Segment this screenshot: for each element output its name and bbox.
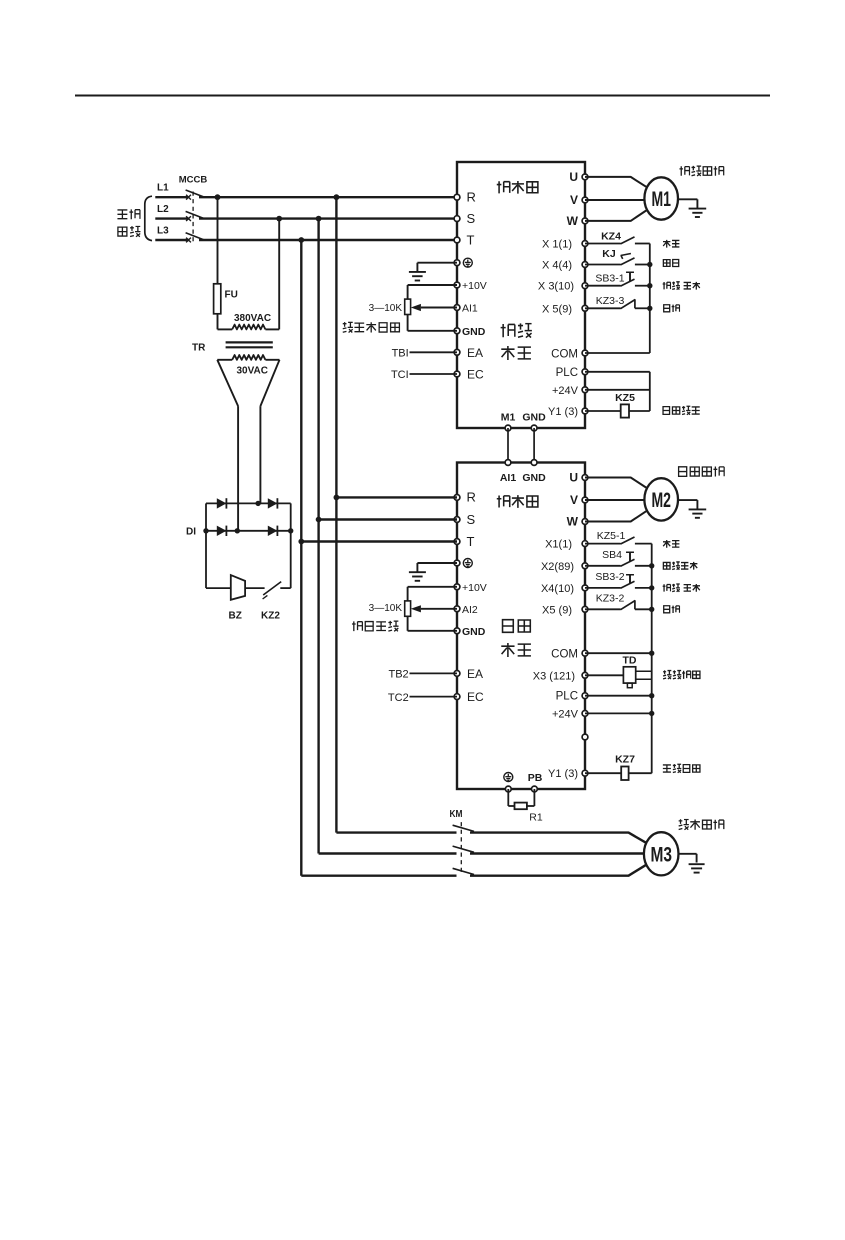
svg-text:MCCB: MCCB (179, 175, 208, 186)
svg-text:SB3-2: SB3-2 (595, 571, 624, 583)
svg-text:M1: M1 (501, 412, 516, 424)
svg-text:GND: GND (462, 326, 486, 338)
svg-text:SB3-1: SB3-1 (595, 273, 624, 285)
svg-text:T: T (467, 534, 475, 549)
svg-text:X5 (9): X5 (9) (542, 604, 572, 616)
svg-text:EA: EA (467, 667, 483, 681)
svg-text:EC: EC (467, 690, 484, 704)
svg-text:Y1 (3): Y1 (3) (548, 768, 578, 780)
svg-text:Y1 (3): Y1 (3) (548, 406, 578, 418)
svg-text:R: R (467, 190, 476, 205)
svg-text:L2: L2 (157, 204, 169, 215)
svg-text:L3: L3 (157, 226, 169, 237)
svg-text:KZ3-2: KZ3-2 (596, 593, 625, 605)
svg-text:X 1(1): X 1(1) (542, 239, 572, 251)
svg-text:30VAC: 30VAC (237, 366, 269, 377)
svg-text:KM: KM (450, 808, 463, 820)
svg-text:V: V (570, 193, 578, 207)
svg-text:KZ2: KZ2 (261, 611, 280, 622)
svg-text:COM: COM (551, 649, 578, 661)
svg-text:GND: GND (522, 472, 546, 484)
svg-text:GND: GND (462, 626, 486, 638)
svg-text:TD: TD (623, 655, 637, 667)
svg-text:+24V: +24V (552, 385, 579, 397)
svg-text:EC: EC (467, 368, 484, 382)
svg-text:EA: EA (467, 346, 483, 360)
svg-text:X4(10): X4(10) (541, 583, 574, 595)
svg-text:COM: COM (551, 349, 578, 361)
svg-text:3—10K: 3—10K (369, 603, 403, 614)
svg-text:TBI: TBI (392, 348, 409, 360)
svg-text:X1(1): X1(1) (545, 539, 572, 551)
svg-text:KJ: KJ (602, 248, 616, 260)
svg-text:X2(89): X2(89) (541, 561, 574, 573)
svg-text:V: V (570, 493, 578, 507)
svg-text:T: T (626, 269, 635, 284)
svg-text:R1: R1 (529, 812, 543, 824)
svg-text:BZ: BZ (229, 611, 242, 622)
svg-text:T: T (467, 233, 475, 248)
svg-text:T: T (626, 571, 635, 586)
svg-text:U: U (569, 471, 578, 485)
svg-text:S: S (467, 512, 476, 527)
svg-text:380VAC: 380VAC (234, 313, 271, 324)
svg-text:+10V: +10V (462, 582, 487, 594)
svg-text:W: W (567, 214, 579, 228)
svg-text:TR: TR (192, 343, 206, 354)
svg-text:T: T (626, 549, 635, 564)
svg-text:KZ5-1: KZ5-1 (597, 530, 626, 542)
svg-text:TC2: TC2 (388, 692, 409, 704)
svg-text:DI: DI (186, 527, 196, 538)
svg-text:SB4: SB4 (602, 549, 622, 561)
svg-text:X 3(10): X 3(10) (538, 281, 574, 293)
svg-text:KZ7: KZ7 (615, 754, 635, 766)
svg-text:R: R (467, 490, 476, 505)
svg-text:M3: M3 (650, 843, 672, 866)
svg-text:L1: L1 (157, 183, 169, 194)
svg-text:PLC: PLC (556, 691, 578, 703)
svg-text:+24V: +24V (552, 708, 579, 720)
svg-text:3—10K: 3—10K (369, 303, 403, 314)
svg-text:AI2: AI2 (462, 604, 478, 616)
svg-text:FU: FU (225, 290, 238, 301)
svg-text:X3 (121): X3 (121) (533, 670, 575, 682)
svg-text:AI1: AI1 (462, 303, 478, 315)
svg-text:PLC: PLC (556, 367, 578, 379)
svg-text:W: W (567, 515, 579, 529)
svg-text:+10V: +10V (462, 280, 487, 292)
svg-text:KZ4: KZ4 (601, 230, 621, 242)
svg-text:S: S (467, 211, 476, 226)
svg-text:TCI: TCI (391, 369, 409, 381)
svg-text:PB: PB (528, 772, 543, 784)
svg-text:U: U (569, 170, 578, 184)
svg-text:GND: GND (522, 412, 546, 424)
svg-text:KZ3-3: KZ3-3 (596, 295, 625, 307)
svg-text:M1: M1 (651, 188, 671, 211)
svg-text:X 5(9): X 5(9) (542, 303, 572, 315)
svg-text:AI1: AI1 (500, 472, 517, 484)
svg-text:M2: M2 (651, 489, 671, 512)
svg-text:X 4(4): X 4(4) (542, 260, 572, 272)
svg-text:KZ5: KZ5 (615, 392, 635, 404)
svg-text:TB2: TB2 (389, 669, 409, 681)
